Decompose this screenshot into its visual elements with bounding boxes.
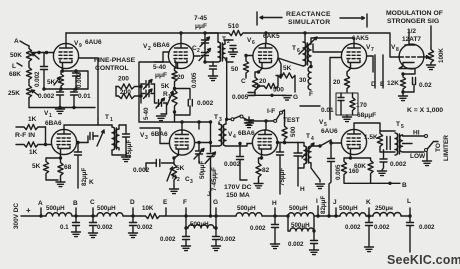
capacitor 0.002 c bbox=[92, 216, 94, 222]
svg-text:7-45μμF: 7-45μμF bbox=[211, 167, 218, 191]
inductor 500uH i low bbox=[287, 216, 289, 231]
node T6 bottom bbox=[309, 65, 312, 68]
tube V9 6AU6 bbox=[53, 43, 78, 68]
ground 0.1 bbox=[72, 232, 81, 237]
transformer T3 bbox=[219, 124, 222, 146]
wire H column bbox=[297, 168, 299, 186]
svg-text:68K: 68K bbox=[9, 71, 21, 78]
svg-text:20: 20 bbox=[333, 79, 341, 86]
wire V4 grid bbox=[247, 143, 252, 145]
svg-text:1: 1 bbox=[168, 94, 171, 100]
pot 5K R2 bbox=[171, 158, 176, 186]
wire V6 screen bbox=[278, 58, 281, 76]
wire V5 cathode bbox=[350, 155, 352, 158]
svg-text:12K: 12K bbox=[387, 80, 399, 87]
terminal J2 bbox=[335, 208, 337, 216]
pot 5K R1 bbox=[172, 84, 177, 112]
svg-text:6BA6: 6BA6 bbox=[45, 120, 62, 127]
capacitor 0.002 d bbox=[132, 216, 134, 222]
svg-text:L: L bbox=[407, 198, 411, 205]
svg-text:500μH: 500μH bbox=[339, 205, 358, 212]
svg-text:0.002: 0.002 bbox=[97, 224, 113, 231]
svg-text:3: 3 bbox=[190, 179, 193, 185]
svg-text:T: T bbox=[292, 45, 296, 52]
wire rail h bbox=[262, 215, 288, 217]
wire V3 plate bbox=[181, 122, 183, 130]
trimmer capacitor 5-40 c bbox=[159, 100, 162, 107]
svg-text:G: G bbox=[213, 199, 218, 206]
svg-text:6BA6: 6BA6 bbox=[238, 130, 255, 137]
wire V4 cathode bbox=[261, 155, 263, 158]
node fp joins bbox=[139, 85, 142, 88]
wire T2 pri bbox=[205, 33, 218, 62]
wire T5 taps bbox=[403, 135, 425, 152]
wire T3 column up bbox=[226, 58, 228, 119]
svg-text:SIMULATOR: SIMULATOR bbox=[288, 19, 330, 26]
svg-text:1K: 1K bbox=[28, 116, 37, 123]
svg-text:2: 2 bbox=[177, 177, 180, 183]
svg-text:82: 82 bbox=[262, 167, 270, 174]
svg-text:0.002: 0.002 bbox=[224, 161, 241, 168]
capacitor 0.005 V6 bbox=[250, 94, 255, 96]
svg-text:1.5K: 1.5K bbox=[364, 134, 378, 141]
resistor 20 V2 bbox=[172, 62, 177, 84]
svg-text:J: J bbox=[333, 199, 337, 206]
svg-text:K: K bbox=[366, 199, 371, 206]
switch IF right bbox=[274, 119, 277, 122]
svg-text:TEST: TEST bbox=[283, 117, 300, 124]
svg-text:J: J bbox=[207, 191, 211, 198]
wire T4 sec top bbox=[311, 140, 331, 146]
svg-text:0.002: 0.002 bbox=[288, 241, 304, 248]
tube V6 6AK5 bbox=[253, 43, 278, 68]
svg-text:1: 1 bbox=[110, 117, 113, 123]
resistor 510 bbox=[226, 30, 246, 35]
svg-text:HI: HI bbox=[413, 130, 420, 137]
wire IF gnd bbox=[243, 118, 249, 124]
wire D lead bbox=[374, 55, 376, 88]
ground 0.002 f bbox=[182, 246, 191, 251]
wire V3 grid bbox=[140, 128, 169, 144]
ground 0.005 a bbox=[209, 76, 218, 81]
wire T6 sec out bbox=[310, 62, 312, 67]
svg-text:7-45: 7-45 bbox=[194, 15, 207, 22]
svg-text:T: T bbox=[306, 133, 310, 140]
capacitor 0.002 V3 bbox=[162, 162, 175, 164]
terminal C2b bbox=[92, 208, 94, 216]
inductor 500uH a bbox=[46, 213, 72, 216]
svg-text:F: F bbox=[309, 91, 313, 98]
svg-text:0.002: 0.002 bbox=[38, 93, 55, 100]
svg-text:68μμF: 68μμF bbox=[357, 112, 376, 119]
svg-text:4: 4 bbox=[311, 136, 314, 142]
wire V6 plate out bbox=[278, 58, 303, 66]
ground fp bbox=[157, 116, 166, 121]
ground 100K bbox=[427, 65, 436, 70]
wire V5 grid link bbox=[330, 140, 332, 158]
wire V1 plate bbox=[64, 125, 112, 129]
svg-text:0.002: 0.002 bbox=[250, 225, 266, 232]
capacitor C2 bbox=[204, 48, 206, 52]
wire V2 plate bbox=[180, 33, 182, 43]
coil T1 right bbox=[116, 129, 119, 148]
wire V6 cath bus bbox=[255, 94, 283, 96]
wire rail a bbox=[21, 215, 46, 217]
wire J column bbox=[210, 166, 212, 216]
resistor 20 V7 bbox=[344, 72, 349, 92]
trimmer T1 bbox=[97, 130, 104, 146]
capacitor 0.002 grid bbox=[43, 53, 45, 67]
svg-text:7: 7 bbox=[371, 47, 374, 53]
trimmer capacitor 5-40 b bbox=[141, 93, 145, 95]
svg-text:25K: 25K bbox=[8, 90, 20, 97]
wire T5 tune bbox=[380, 131, 395, 152]
svg-text:6AK5: 6AK5 bbox=[263, 33, 280, 40]
transformer T2 bbox=[218, 42, 221, 62]
coil T6 sec bbox=[308, 44, 311, 62]
inductor 250uH bbox=[373, 213, 401, 217]
transformer T6 bbox=[303, 42, 306, 66]
wire rail b bbox=[72, 215, 97, 217]
wire rail c bbox=[123, 215, 141, 217]
terminal I2 bbox=[317, 206, 319, 216]
svg-text:1: 1 bbox=[49, 113, 52, 119]
svg-text:REACTANCE: REACTANCE bbox=[286, 11, 331, 18]
wire V7 grid a bbox=[313, 44, 341, 52]
resistor 1K b bbox=[16, 142, 51, 147]
ground 12K bbox=[402, 92, 404, 96]
wire T3 pri bbox=[211, 122, 219, 146]
wire E lead bbox=[382, 55, 384, 88]
capacitor T2 out bbox=[230, 46, 236, 49]
svg-text:30: 30 bbox=[299, 77, 307, 84]
svg-text:6: 6 bbox=[252, 40, 255, 46]
resistor 500 V6 bbox=[259, 76, 279, 89]
resistor 82 bbox=[256, 158, 262, 182]
wire rs bottom bbox=[300, 105, 320, 107]
wire IF row bbox=[249, 120, 274, 122]
resistor 10K bbox=[141, 213, 164, 218]
resistor 200 b bbox=[116, 93, 141, 98]
inductor 500uH c2 bbox=[236, 213, 262, 216]
wire V4 out bbox=[278, 142, 299, 144]
wire trim c down bbox=[166, 103, 168, 114]
capacitor 0.1 bbox=[75, 216, 77, 222]
capacitor 0.002 l bbox=[409, 216, 411, 222]
svg-text:200: 200 bbox=[120, 89, 131, 96]
svg-text:5-40: 5-40 bbox=[153, 64, 166, 71]
svg-text:C: C bbox=[241, 78, 246, 85]
ground 0.002 h2 bbox=[271, 244, 280, 249]
svg-text:1K: 1K bbox=[29, 149, 38, 156]
svg-text:3: 3 bbox=[145, 135, 148, 141]
wire T6 pri bbox=[304, 33, 306, 42]
capacitor 0.01 bbox=[73, 89, 75, 92]
svg-text:0.002: 0.002 bbox=[76, 72, 83, 88]
wire T4 pri bbox=[298, 143, 304, 169]
svg-text:500μH: 500μH bbox=[237, 205, 256, 212]
ground 0.002 V5 bbox=[378, 171, 387, 176]
wire V6 cathode bbox=[259, 69, 263, 72]
svg-text:200: 200 bbox=[118, 76, 129, 83]
ground tank bbox=[346, 115, 348, 117]
svg-text:FINE-PHASE: FINE-PHASE bbox=[94, 57, 136, 64]
tube V2 6BA6 bbox=[168, 43, 193, 68]
ground 0.002 c bbox=[89, 233, 98, 238]
wire T1 right bbox=[112, 125, 126, 155]
capacitor 0.002 f bbox=[185, 228, 187, 236]
wire fp bottom bbox=[139, 121, 211, 123]
resistor 20 V6 bbox=[252, 72, 258, 95]
tube V5 6AU6 bbox=[341, 129, 366, 154]
svg-text:1/2: 1/2 bbox=[407, 28, 416, 35]
wire fp 200 left bbox=[115, 87, 117, 97]
bracket reactance left bbox=[256, 12, 258, 25]
svg-text:D: D bbox=[130, 199, 135, 206]
tube V8 12AT7 bbox=[399, 44, 424, 69]
resistor TEST 500 bbox=[282, 123, 287, 143]
wire rail e bbox=[164, 215, 236, 217]
ground V3 cathode bbox=[173, 186, 175, 189]
svg-text:8: 8 bbox=[396, 47, 399, 53]
wire C2 bottom bbox=[205, 61, 213, 63]
svg-text:K = X 1,000: K = X 1,000 bbox=[407, 107, 443, 114]
wire T3 sec bbox=[226, 119, 247, 146]
wire V9 grid bbox=[31, 52, 54, 54]
wire fp left rail bbox=[139, 62, 170, 122]
wire R1 bypass loop bbox=[175, 89, 191, 123]
svg-text:T: T bbox=[105, 114, 109, 121]
resistor 1.5K bbox=[377, 131, 382, 149]
svg-text:250μн: 250μн bbox=[375, 205, 393, 212]
svg-text:E: E bbox=[380, 81, 385, 88]
svg-text:0.002: 0.002 bbox=[133, 167, 150, 174]
terminal K2 bbox=[368, 208, 370, 216]
terminal L2 bbox=[409, 208, 411, 216]
svg-text:SeeKIC.com: SeeKIC.com bbox=[387, 253, 460, 267]
svg-text:2: 2 bbox=[197, 48, 200, 54]
svg-text:0.002: 0.002 bbox=[345, 224, 361, 231]
svg-text:68: 68 bbox=[64, 164, 72, 171]
svg-text:R-F IN: R-F IN bbox=[15, 132, 35, 139]
terminal A2 bbox=[40, 208, 42, 216]
V8 cathode bbox=[399, 63, 415, 75]
svg-text:100K: 100K bbox=[438, 48, 445, 63]
svg-text:5K: 5K bbox=[161, 83, 170, 90]
terminal D2 bbox=[132, 208, 134, 216]
svg-text:5K: 5K bbox=[283, 65, 292, 72]
svg-text:E: E bbox=[163, 199, 168, 206]
wire V9 cathode bbox=[61, 69, 88, 89]
capacitor 0.002 k bbox=[368, 216, 370, 222]
ground T5 switch bbox=[426, 152, 428, 161]
switch IF left bbox=[231, 118, 234, 121]
svg-text:500: 500 bbox=[290, 126, 297, 137]
wire 25K bottom bbox=[28, 99, 30, 108]
capacitor 45uuF bbox=[125, 125, 127, 134]
svg-text:LOW: LOW bbox=[410, 153, 426, 160]
capacitor 0.02 bbox=[403, 73, 414, 75]
svg-text:20: 20 bbox=[259, 78, 267, 85]
wire V7 grid b bbox=[330, 58, 341, 120]
svg-text:L: L bbox=[12, 63, 16, 70]
resistor 5K V1 bbox=[43, 158, 60, 180]
wire V4 plate bbox=[265, 121, 267, 129]
svg-text:T: T bbox=[214, 114, 218, 121]
wire V3 out bbox=[195, 142, 211, 144]
wire V2 out bbox=[194, 55, 200, 57]
svg-text:G: G bbox=[293, 94, 298, 101]
wire rail i bbox=[314, 215, 340, 217]
svg-text:12AT7: 12AT7 bbox=[402, 36, 421, 43]
svg-text:6AU6: 6AU6 bbox=[85, 39, 102, 46]
svg-text:I-F: I-F bbox=[267, 108, 275, 115]
ground 0.002 d bbox=[129, 233, 138, 238]
coil 30 bbox=[308, 67, 311, 91]
capacitor T4 tune bbox=[294, 153, 302, 156]
capacitor 0.002 h bbox=[59, 89, 61, 92]
tube V7 6AK5 bbox=[341, 43, 366, 68]
svg-text:0.002: 0.002 bbox=[137, 224, 153, 231]
terminal G2 bbox=[215, 208, 217, 216]
svg-text:60K: 60K bbox=[354, 163, 366, 170]
svg-text:4: 4 bbox=[233, 134, 236, 140]
V8 plate bbox=[405, 30, 415, 45]
svg-text:0.002: 0.002 bbox=[160, 236, 176, 243]
resistor 5K V6 bbox=[276, 73, 295, 92]
ground 0.002 k bbox=[365, 247, 374, 252]
ground V6 bus bbox=[283, 94, 286, 96]
tube V4 6BA6 bbox=[252, 130, 277, 155]
capacitor T1 left bbox=[90, 133, 93, 140]
svg-text:50K: 50K bbox=[10, 52, 22, 59]
svg-text:9: 9 bbox=[79, 43, 82, 49]
capacitor 0.002 V4 bbox=[239, 144, 241, 157]
capacitor 0.002 R1 bbox=[188, 100, 192, 107]
svg-text:0.005: 0.005 bbox=[191, 72, 198, 88]
svg-text:500μH: 500μH bbox=[97, 205, 116, 212]
capacitor 0.002 V5 bbox=[383, 150, 385, 159]
capacitor 0.002 i bbox=[313, 231, 315, 240]
wire V5 plate bbox=[354, 123, 380, 131]
svg-text:STRONGER SIG: STRONGER SIG bbox=[387, 18, 439, 25]
svg-text:82μμF: 82μμF bbox=[320, 196, 327, 214]
svg-text:10K: 10K bbox=[142, 205, 154, 212]
wire B rail bbox=[344, 176, 400, 183]
svg-text:150 MA: 150 MA bbox=[226, 192, 250, 199]
svg-text:50: 50 bbox=[231, 66, 239, 73]
wire rail l bbox=[401, 215, 410, 217]
capacitor 75uuF bbox=[279, 143, 281, 152]
svg-text:0.01: 0.01 bbox=[321, 107, 334, 114]
inductor 500uH d2 bbox=[288, 213, 314, 216]
ground lower bus bbox=[56, 109, 65, 114]
trimmer 50uuF bbox=[198, 122, 200, 129]
svg-text:A: A bbox=[38, 200, 43, 207]
transformer T4 bbox=[304, 146, 306, 164]
svg-text:0.01: 0.01 bbox=[78, 93, 91, 100]
svg-text:2: 2 bbox=[148, 46, 151, 52]
wire V5 grid bbox=[331, 142, 341, 144]
transformer T1 bbox=[112, 127, 115, 150]
trimmer capacitor 7-45 top bbox=[204, 33, 206, 39]
capacitor 0.002 g bbox=[215, 228, 217, 236]
wire 100K top bbox=[430, 26, 432, 48]
trimmer capacitor 5-40 a bbox=[141, 83, 145, 85]
wire V9 plate bbox=[65, 33, 67, 43]
capacitor 0.002 h2 bbox=[274, 216, 276, 224]
svg-text:TO: TO bbox=[435, 143, 442, 152]
wire V6 grid bbox=[246, 55, 253, 57]
wire V3 cathode bbox=[174, 155, 179, 158]
switch HI LOW bbox=[425, 135, 428, 138]
node C2 bottom bbox=[203, 60, 206, 63]
svg-text:5K: 5K bbox=[176, 165, 185, 172]
svg-text:75μμF: 75μμF bbox=[279, 168, 286, 186]
svg-text:μμF: μμF bbox=[195, 23, 207, 30]
wire lower bus V9 bbox=[29, 107, 95, 109]
svg-text:B: B bbox=[402, 182, 407, 189]
svg-text:5K: 5K bbox=[47, 79, 56, 86]
svg-text:0.1: 0.1 bbox=[60, 224, 69, 231]
resistor 100K bbox=[428, 48, 433, 64]
svg-text:0.002: 0.002 bbox=[419, 224, 435, 231]
svg-text:A: A bbox=[14, 38, 19, 45]
wire TEST top bbox=[282, 110, 285, 123]
potentiometer 5K cath V9 bbox=[58, 71, 63, 89]
svg-text:500: 500 bbox=[273, 87, 284, 94]
svg-text:6AU6: 6AU6 bbox=[321, 128, 338, 135]
svg-text:H: H bbox=[272, 200, 277, 207]
svg-text:0.02: 0.02 bbox=[419, 82, 432, 89]
inductor 500uH e2 bbox=[340, 213, 366, 216]
svg-text:82μμF: 82μμF bbox=[81, 168, 88, 186]
terminal B2 bbox=[75, 208, 77, 216]
wire fp mid rail bbox=[155, 84, 158, 103]
arrow T4 bbox=[302, 143, 314, 158]
svg-text:300V DC: 300V DC bbox=[13, 203, 20, 229]
ground 0.002 i bbox=[310, 250, 319, 255]
svg-text:0.002: 0.002 bbox=[34, 71, 41, 87]
ground 82 bbox=[258, 182, 260, 184]
ground V1 cathode bbox=[60, 180, 62, 182]
svg-text:0.002: 0.002 bbox=[374, 224, 390, 231]
svg-text:μμF: μμF bbox=[155, 72, 167, 79]
resistor 68K bbox=[26, 64, 31, 83]
trimmer 7-45 b bbox=[210, 122, 212, 152]
capacitor 0.005 V5 bbox=[328, 159, 335, 162]
terminal F2 bbox=[185, 208, 187, 216]
resistor 170 bbox=[350, 93, 355, 115]
wire V1 out bbox=[77, 142, 88, 144]
ground V4 top bbox=[245, 120, 254, 125]
svg-text:5-40: 5-40 bbox=[143, 107, 150, 120]
svg-text:H: H bbox=[300, 186, 305, 193]
tube V1 6BA6 bbox=[51, 129, 76, 154]
wire V1 grid join bbox=[45, 127, 47, 145]
svg-text:0.002: 0.002 bbox=[197, 100, 214, 107]
svg-text:LIMITER: LIMITER bbox=[443, 135, 450, 161]
svg-text:170V DC: 170V DC bbox=[224, 184, 252, 191]
svg-text:45μμF: 45μμF bbox=[126, 140, 133, 158]
resistor 12K bbox=[400, 74, 405, 92]
resistor 60K bbox=[351, 158, 374, 176]
svg-text:500μH: 500μH bbox=[46, 205, 65, 212]
ground 0.002 g bbox=[212, 246, 221, 251]
resistor 160 bbox=[341, 158, 350, 178]
wire V7 screen bbox=[367, 56, 373, 72]
svg-text:K: K bbox=[89, 179, 94, 186]
